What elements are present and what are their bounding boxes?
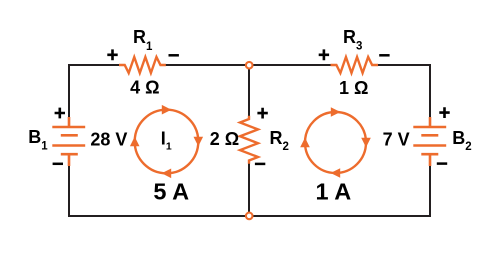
node top bbox=[246, 62, 253, 69]
svg-text:28 V: 28 V bbox=[90, 130, 127, 150]
svg-text:7 V: 7 V bbox=[383, 129, 410, 149]
resistor R3 bbox=[331, 57, 379, 73]
svg-text:1 A: 1 A bbox=[316, 179, 352, 205]
resistor R1 bbox=[119, 57, 166, 73]
battery B2 bbox=[413, 117, 446, 166]
minus B2 bbox=[437, 162, 447, 165]
node bottom bbox=[246, 213, 253, 220]
wire top-left segment bbox=[68, 64, 120, 66]
svg-text:1 Ω: 1 Ω bbox=[339, 78, 368, 98]
plus R2 bbox=[257, 108, 267, 119]
minus R3 bbox=[379, 54, 389, 57]
svg-text:4 Ω: 4 Ω bbox=[130, 77, 159, 97]
wire bottom bbox=[68, 215, 431, 217]
wire left lower bbox=[68, 165, 70, 217]
wire top-right segment bbox=[378, 64, 431, 66]
mesh current loop I1 bbox=[130, 105, 203, 178]
mesh current loop I2 bbox=[300, 107, 371, 178]
minus R1 bbox=[169, 54, 179, 57]
minus R2 bbox=[255, 163, 265, 166]
svg-text:2 Ω: 2 Ω bbox=[210, 129, 239, 149]
wire top-middle segment bbox=[166, 64, 332, 66]
plus B2 bbox=[439, 107, 449, 118]
svg-text:5 A: 5 A bbox=[153, 178, 189, 204]
battery B1 bbox=[52, 117, 85, 166]
wire left upper bbox=[68, 64, 70, 118]
plus B1 bbox=[55, 108, 65, 119]
wire middle upper bbox=[248, 65, 250, 116]
minus B1 bbox=[53, 163, 63, 166]
wire right upper bbox=[429, 64, 431, 118]
wire middle lower bbox=[248, 163, 250, 216]
wire right lower bbox=[429, 165, 431, 217]
resistor R2 bbox=[240, 116, 258, 164]
plus R3 bbox=[319, 49, 329, 60]
plus R1 bbox=[107, 49, 117, 60]
